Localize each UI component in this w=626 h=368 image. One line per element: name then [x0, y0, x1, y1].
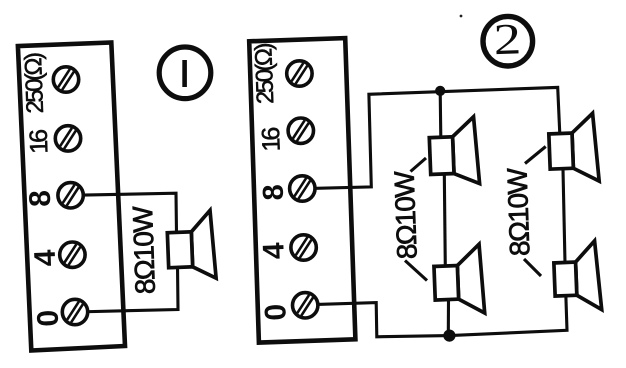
svg-text:8Ω10W: 8Ω10W: [501, 167, 535, 257]
speaker LS3 lower left: [433, 244, 485, 315]
svg-text:0: 0: [259, 303, 293, 321]
callout circle 1: [159, 47, 211, 99]
svg-text:0: 0: [32, 309, 66, 327]
terminal strip T2 outline: [249, 38, 355, 343]
terminal T1 250ohm screw: [53, 67, 78, 92]
svg-text:8Ω10W: 8Ω10W: [389, 170, 423, 260]
speaker LS1: [167, 210, 217, 280]
junction node A: [435, 86, 445, 96]
speaker LS2 upper left: [429, 117, 480, 186]
terminal T2 0 screw: [293, 293, 318, 318]
svg-text:250(Ω): 250(Ω): [20, 53, 49, 114]
wire T1 terminal 0 to speaker LS1 bottom: [75, 266, 178, 313]
wire speaker LS2 to speaker LS3: [444, 173, 445, 267]
wire T1 terminal 8 to speaker LS1 top: [71, 193, 177, 233]
wire T2 terminal 0 to bottom rail to right branch: [305, 297, 567, 337]
svg-text:8: 8: [24, 190, 58, 208]
wire T2 terminal 8 to node A and top rail to right branch: [301, 87, 559, 188]
terminal T1 16 screw: [55, 126, 80, 151]
speaker LS4 upper right: [548, 113, 599, 183]
svg-text:8: 8: [258, 184, 291, 201]
wire node A to speaker LS2: [439, 91, 443, 138]
leader line right label to LS5: [524, 259, 541, 276]
svg-text:250(Ω): 250(Ω): [250, 43, 279, 104]
svg-text:16: 16: [25, 129, 54, 154]
svg-text:4: 4: [29, 249, 63, 267]
svg-text:16: 16: [257, 127, 286, 152]
leader line left label to LS3: [405, 261, 427, 281]
terminal T2 4 screw: [291, 235, 316, 260]
leader line left label to LS2: [411, 158, 427, 172]
terminal T2 250ohm screw: [287, 61, 312, 86]
terminal T2 16 screw: [288, 118, 313, 143]
terminal strip T1 outline: [18, 43, 125, 351]
svg-text:8Ω10W: 8Ω10W: [127, 205, 161, 295]
terminal T1 8 screw: [58, 183, 83, 208]
svg-text:2: 2: [493, 14, 522, 64]
wire speaker LS4 to speaker LS5: [563, 170, 565, 264]
terminal T1 4 screw: [60, 242, 85, 267]
svg-text:4: 4: [257, 242, 291, 260]
scan speck: [460, 15, 463, 18]
speaker LS5 lower right: [553, 241, 602, 312]
callout circle 2: [483, 14, 533, 66]
terminal T2 8 screw: [290, 176, 315, 201]
terminal T1 0 screw: [62, 299, 87, 324]
wire speaker LS3 to node B: [447, 299, 450, 336]
leader line right label to LS4: [525, 147, 546, 164]
junction node B: [443, 330, 455, 342]
